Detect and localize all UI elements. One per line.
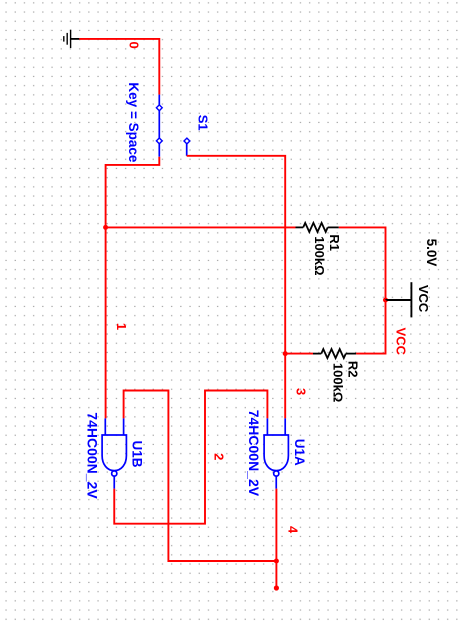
svg-text:U1B: U1B [130, 440, 145, 467]
VCC power symbol [386, 282, 412, 317]
switch S1 [159, 95, 186, 157]
svg-text:3: 3 [294, 388, 309, 395]
wire ground to switch top [79, 39, 159, 95]
wire U1B output to U1A input A (node 2) [114, 391, 267, 524]
svg-text:0: 0 [127, 41, 142, 48]
svg-text:U1A: U1A [292, 439, 307, 466]
svg-text:S1: S1 [196, 115, 211, 131]
svg-text:R2: R2 [346, 361, 361, 378]
junction node4 [274, 559, 279, 564]
wire R2 left to node3 junction [285, 353, 313, 355]
svg-text:Key = Space: Key = Space [126, 82, 141, 162]
wire node1 to R1 [106, 226, 296, 228]
resistor R2 [313, 349, 356, 358]
svg-text:74HC00N_2V: 74HC00N_2V [246, 410, 262, 497]
wire U1B input B loop to U1A output (node 4) [124, 391, 277, 562]
svg-text:5.0V: 5.0V [424, 239, 439, 267]
junction VCC [383, 298, 388, 303]
svg-text:4: 4 [286, 526, 301, 534]
svg-text:100kΩ: 100kΩ [331, 363, 346, 402]
ground [64, 30, 80, 48]
svg-text:100kΩ: 100kΩ [312, 236, 327, 275]
wire end marker [274, 585, 279, 590]
wire S1 right contact to U1A input B [187, 156, 286, 419]
svg-text:2: 2 [212, 453, 227, 460]
svg-text:74HC00N_2V: 74HC00N_2V [85, 412, 101, 499]
resistor R1 [296, 223, 339, 232]
svg-text:VCC: VCC [394, 328, 409, 356]
junction node1/R1 [103, 225, 108, 230]
svg-text:1: 1 [114, 323, 129, 330]
wire U1A output down [275, 489, 277, 588]
NAND gate U1B [102, 418, 126, 488]
wire VCC junction down to R2 [356, 300, 385, 354]
svg-text:VCC: VCC [416, 285, 431, 313]
svg-text:R1: R1 [327, 234, 342, 251]
junction node3 [283, 351, 288, 356]
wire switch bottom to node1 vertical [106, 157, 160, 419]
wire R1 to VCC junction [339, 227, 386, 300]
NAND gate U1A [264, 418, 288, 488]
